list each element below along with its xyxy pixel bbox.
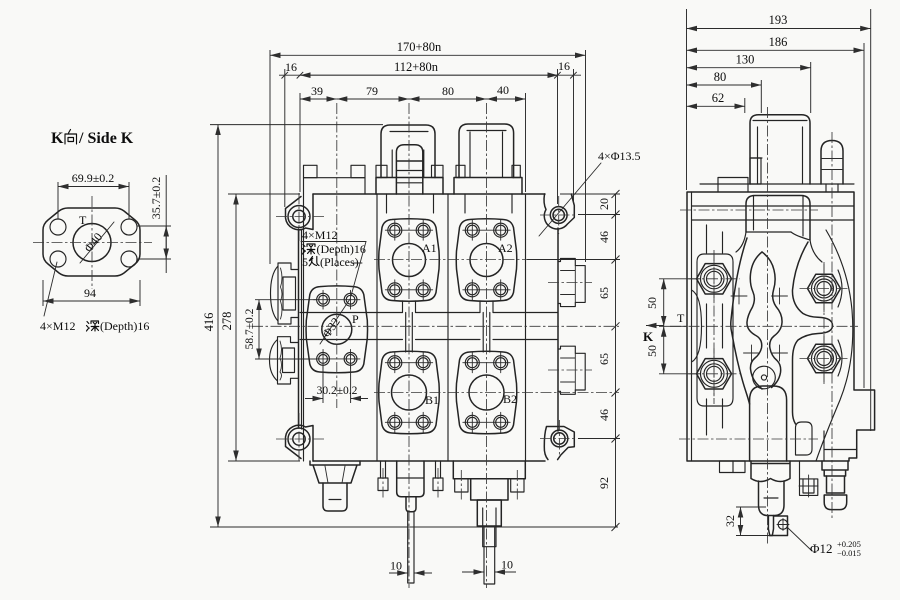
- svg-text:(Places): (Places): [320, 255, 359, 269]
- dim 35.7 extension lines: [137, 225, 171, 227]
- phi40 leader diagonal: [80, 222, 114, 263]
- bolt hole bottom-right: [121, 251, 137, 267]
- svg-text:65: 65: [597, 287, 611, 299]
- tick: [612, 211, 620, 219]
- A2 bolt hole: [465, 223, 479, 237]
- B2 bolt hole row centerline: [463, 362, 510, 364]
- side small window right of arch: [796, 422, 813, 455]
- bracket1 clamp block left: [376, 165, 387, 177]
- spool1 cap inside bracket: [396, 145, 422, 194]
- side right stem boot: [824, 495, 847, 510]
- clamp bolt shank lines into body: [387, 194, 513, 213]
- body left face lines: [298, 229, 300, 428]
- side casting edge from top block: [736, 232, 822, 262]
- dim 278: [235, 194, 237, 461]
- A ports horizontal centerline: [374, 259, 619, 261]
- side central blob profile: [747, 252, 762, 389]
- svg-text:Φ40: Φ40: [81, 230, 105, 255]
- inlet cover top bar: [304, 178, 366, 194]
- svg-text:65: 65: [597, 353, 611, 365]
- section joint line 1: [376, 194, 378, 461]
- relief valve boss lower on left face: [278, 337, 299, 384]
- side view body outline: [687, 192, 875, 461]
- svg-text:112+80n: 112+80n: [394, 60, 439, 74]
- A2 bolt hole row centerline: [463, 289, 510, 291]
- spool2 block step2: [477, 500, 501, 526]
- ext lines for 30.2: [323, 364, 351, 403]
- centerline spool 1 vertical: [408, 103, 410, 588]
- P bolt hole row centerline: [314, 358, 361, 360]
- svg-text:B1: B1: [425, 393, 439, 407]
- side outer casting profile right with finger: [792, 242, 832, 424]
- svg-text:170+80n: 170+80n: [397, 40, 442, 54]
- svg-text:4×M12: 4×M12: [40, 319, 75, 333]
- side top dim extension lines: [687, 9, 871, 431]
- bracket2 clamp block right: [512, 165, 520, 177]
- ext lines for 58.7: [255, 300, 316, 359]
- dim 80: [687, 84, 762, 86]
- dim 69.9 extension lines: [57, 182, 59, 219]
- side right lower plate: [824, 431, 857, 461]
- side stem tip: [768, 516, 773, 536]
- A1 bolt hole row centerline: [385, 229, 432, 231]
- side central casting top block: [746, 196, 810, 241]
- svg-text:T: T: [79, 213, 87, 227]
- svg-text:10: 10: [390, 559, 402, 573]
- tick: [612, 322, 620, 330]
- side lower-left hex bolt head: [697, 359, 732, 389]
- P bolt hole: [317, 293, 330, 306]
- main horizontal centerline: [252, 325, 619, 327]
- mounting lug top-right: [544, 194, 574, 229]
- right dim chain line: [615, 194, 617, 527]
- svg-text:50: 50: [645, 345, 659, 357]
- relief valve boss upper on left face: [278, 263, 299, 324]
- svg-text:39: 39: [311, 84, 323, 98]
- side stem cylinder: [759, 481, 785, 516]
- dim 35.7 line: [165, 175, 167, 273]
- side upper-right hex bolt head: [808, 274, 841, 303]
- side right casting edge: [816, 230, 853, 461]
- spool1 side studs: [381, 461, 386, 478]
- svg-text:40: 40: [497, 83, 509, 97]
- lever bracket 2 outer U: [459, 124, 514, 178]
- svg-text:(Depth)16: (Depth)16: [100, 319, 149, 333]
- A1 bolt hole: [388, 223, 402, 237]
- A1 bolt hole: [388, 283, 402, 297]
- svg-text:B2: B2: [503, 392, 517, 406]
- lever bracket 1 base plate: [376, 178, 443, 195]
- bolt hole top-left: [50, 219, 66, 235]
- side doorway arch at bottom center: [750, 386, 787, 461]
- main body outline: [313, 194, 545, 461]
- spool2 neck between flanges: [480, 301, 493, 352]
- svg-text:92: 92: [597, 477, 611, 489]
- dim 50/50 extension lines: [659, 279, 700, 374]
- svg-text:46: 46: [597, 231, 611, 243]
- svg-text:46: 46: [597, 409, 611, 421]
- svg-text:416: 416: [202, 313, 216, 332]
- B ports horizontal centerline: [374, 392, 619, 394]
- dim 170+80n: [270, 54, 586, 56]
- P bolt hole row centerline: [314, 299, 361, 301]
- side upper-left hex bolt head: [697, 264, 732, 294]
- leader to P bolt: [351, 242, 366, 297]
- dim 30.2 arrows outside: [305, 398, 368, 400]
- svg-text:50: 50: [645, 297, 659, 309]
- port A1 flange: [379, 219, 440, 302]
- bracket2 inner leg lines: [470, 132, 503, 178]
- second left face line: [303, 194, 305, 461]
- ext top for 416: [210, 124, 383, 126]
- svg-text:A1: A1: [422, 241, 437, 255]
- B1 bolt hole row centerline: [385, 421, 432, 423]
- centerline spool 2 vertical: [486, 103, 488, 588]
- spool2 side studs: [455, 479, 468, 492]
- side top casting edges: [692, 205, 855, 207]
- label 4xM12 depth 16 (K view): [40, 319, 75, 333]
- leader 4xPhi13.5: [539, 163, 601, 236]
- side L bracket: [800, 461, 818, 495]
- dim 16 left: [282, 72, 304, 79]
- svg-text:58.7±0.2: 58.7±0.2: [244, 308, 256, 349]
- spool2 rod: [484, 526, 495, 584]
- svg-text:94: 94: [84, 286, 96, 300]
- side clamp plate: [718, 178, 748, 193]
- relief valve under inlet cover: [310, 461, 360, 483]
- side boss stadium around left hexes: [697, 254, 733, 406]
- side right stem blocks: [822, 461, 848, 476]
- lever bracket 2 base plate: [454, 178, 522, 195]
- B1 bolt hole: [416, 356, 430, 370]
- dim 62: [687, 105, 745, 107]
- dim 10 spool1 rod: [389, 572, 408, 574]
- svg-text:80: 80: [442, 84, 454, 98]
- view title: K向 / Side K: [51, 130, 134, 148]
- A2 bolt hole row centerline: [463, 229, 510, 231]
- side left face bulge: [692, 290, 702, 362]
- svg-text:/ Side K: / Side K: [78, 130, 134, 147]
- side small pilot hole: [753, 366, 776, 389]
- dim 58.7: [258, 300, 260, 359]
- B1 bolt hole: [416, 415, 430, 429]
- side breather plug: [821, 141, 843, 185]
- test port plug lower (right face): [558, 346, 585, 394]
- spool2 inner sleeve: [483, 508, 496, 547]
- svg-text:K: K: [51, 130, 64, 147]
- dim 416: [217, 125, 219, 527]
- hex column centerlines: [713, 250, 715, 404]
- spool2 block step1: [471, 479, 508, 500]
- svg-text:P: P: [352, 312, 359, 326]
- bolt hole bottom-left: [50, 251, 66, 267]
- svg-text:130: 130: [736, 53, 755, 67]
- dim 39: [300, 98, 337, 100]
- spool bore line lower: [300, 339, 558, 341]
- svg-text:A2: A2: [498, 241, 513, 255]
- test port plug upper (right face): [558, 259, 585, 307]
- lever bracket 1 outer U: [381, 125, 435, 178]
- bracket1 clamp block right: [432, 165, 444, 177]
- svg-text:5: 5: [302, 255, 308, 269]
- dim 186: [687, 49, 865, 51]
- dim 80: [409, 98, 487, 100]
- svg-text:35.7±0.2: 35.7±0.2: [149, 177, 163, 220]
- B1 bolt hole: [388, 356, 402, 370]
- B1 bolt hole row centerline: [385, 362, 432, 364]
- dim 94 line: [43, 300, 140, 302]
- side casting webs around left hexes: [707, 225, 723, 435]
- side bottom stem hex: [751, 461, 790, 482]
- svg-text:186: 186: [769, 35, 788, 49]
- dim 112+80n: [279, 74, 581, 76]
- svg-text:30.2±0.2: 30.2±0.2: [317, 385, 358, 397]
- port B1 flange: [379, 351, 440, 434]
- A1 bolt hole: [416, 283, 430, 297]
- svg-text:Φ12: Φ12: [810, 541, 833, 556]
- section joint line 3: [525, 194, 527, 461]
- centerline port P vertical: [336, 103, 338, 408]
- svg-text:62: 62: [712, 91, 725, 105]
- dim 40: [487, 98, 526, 100]
- dim 10 spool2 rod: [462, 571, 484, 573]
- bracket1 inner leg lines: [392, 150, 424, 178]
- top bar boss right: [351, 165, 365, 177]
- svg-text:K: K: [643, 329, 654, 344]
- P bolt hole: [344, 293, 357, 306]
- svg-text:(Depth)16: (Depth)16: [317, 242, 366, 256]
- A2 bolt hole: [494, 223, 508, 237]
- bracket2 inner top line: [467, 130, 506, 132]
- leader phi12: [788, 528, 813, 552]
- dim 50 lower: [663, 326, 665, 374]
- extension lines top: [270, 50, 586, 264]
- A1 bolt hole row centerline: [385, 289, 432, 291]
- flange center hole phi40: [73, 224, 111, 262]
- bracket2 clamp block left: [456, 165, 465, 177]
- mounting lug top-left: [286, 194, 314, 230]
- svg-text:16: 16: [285, 60, 297, 74]
- bracket1 inner top line: [390, 131, 428, 133]
- B2 bolt hole: [465, 356, 479, 370]
- side lever bracket: [750, 115, 810, 184]
- svg-text:80: 80: [714, 70, 727, 84]
- P bolt hole: [344, 353, 357, 366]
- B2 bolt hole row centerline: [463, 421, 510, 423]
- body right face: [557, 228, 559, 431]
- right dim chain extension lines: [527, 194, 620, 439]
- flange centerlines: [91, 196, 93, 289]
- side centerlines: [767, 107, 769, 545]
- B2 bolt hole: [494, 415, 508, 429]
- mounting lug bottom-left: [286, 425, 314, 461]
- spool2 lower base plate: [453, 461, 525, 479]
- port B2 flange: [456, 351, 517, 434]
- svg-text:T: T: [677, 311, 685, 325]
- B2 bolt hole: [465, 415, 479, 429]
- dim 94 extension lines: [42, 280, 44, 306]
- side bottom small block: [720, 461, 746, 473]
- svg-text:−0.015: −0.015: [837, 548, 861, 558]
- side lower-right hex bolt head: [808, 344, 841, 373]
- spool1 lower cap: [397, 461, 424, 497]
- view arrow K: [646, 325, 664, 327]
- svg-text:32: 32: [723, 515, 737, 527]
- svg-text:16: 16: [558, 59, 570, 73]
- section joint line 2: [447, 194, 449, 461]
- ext bottom shared 416/92: [210, 526, 618, 528]
- svg-text:4×M12: 4×M12: [302, 228, 337, 242]
- ext lines for 278: [228, 194, 300, 461]
- tick: [612, 190, 620, 198]
- svg-text:69.9±0.2: 69.9±0.2: [72, 171, 115, 185]
- tick: [612, 523, 620, 531]
- tick: [612, 256, 620, 264]
- phi32 leader diagonal: [320, 299, 350, 344]
- side outer casting profile left diagonal: [731, 238, 750, 404]
- port A2 flange: [456, 219, 517, 302]
- svg-text:79: 79: [366, 84, 378, 98]
- svg-text:278: 278: [220, 312, 234, 331]
- svg-text:10: 10: [501, 558, 513, 572]
- dim 50 upper: [663, 279, 665, 327]
- port P flange: [306, 286, 368, 373]
- spool1 stem: [406, 497, 416, 512]
- dim 193: [687, 28, 871, 30]
- P bolt hole: [317, 353, 330, 366]
- tick: [612, 389, 620, 397]
- dim 79: [337, 98, 409, 100]
- flange outline (K view): [43, 208, 140, 276]
- B1 bolt hole: [388, 415, 402, 429]
- mounting lug bottom-right: [544, 427, 574, 460]
- dim 16 right: [554, 72, 577, 79]
- bolt hole top-right: [121, 219, 137, 235]
- spool bore line upper: [300, 312, 558, 314]
- A2 bolt hole: [465, 283, 479, 297]
- tie rod cross marks: [731, 288, 747, 304]
- svg-text:20: 20: [597, 198, 611, 210]
- B2 bolt hole: [494, 356, 508, 370]
- top bar boss left: [304, 165, 318, 177]
- dim 130: [687, 67, 811, 69]
- side top plate line: [700, 183, 854, 185]
- spool1 neck between flanges: [403, 301, 416, 352]
- dim 32: [740, 507, 742, 536]
- tick: [612, 435, 620, 443]
- spool1 rod: [408, 512, 414, 583]
- A2 bolt hole: [494, 283, 508, 297]
- svg-text:193: 193: [769, 13, 788, 27]
- svg-text:4×Φ13.5: 4×Φ13.5: [598, 149, 641, 163]
- dim 32 extension lines: [736, 507, 770, 536]
- label 4xM12 depth16 (K view) leader: [44, 262, 57, 316]
- side tab with phi12 hole: [769, 516, 788, 536]
- dim 69.9 line: [58, 186, 129, 188]
- A1 bolt hole: [416, 223, 430, 237]
